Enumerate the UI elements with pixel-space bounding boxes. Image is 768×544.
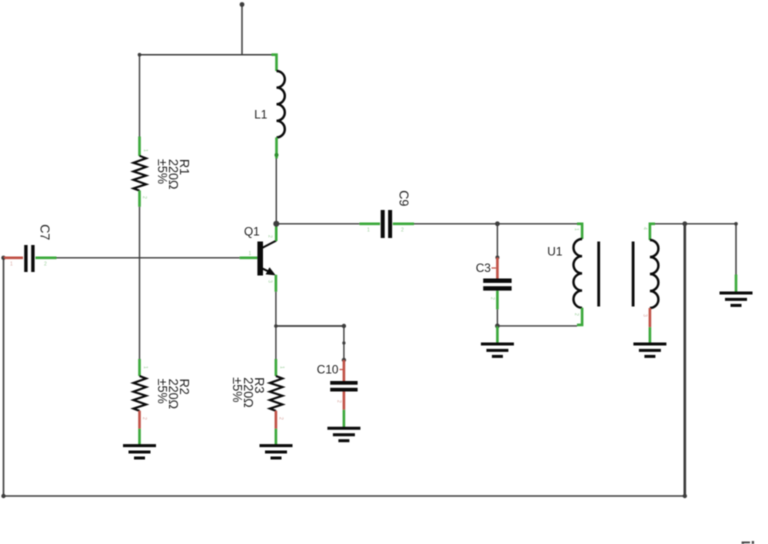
node bottom-right corner [683,494,687,498]
wire collector junction to C9 [276,223,359,225]
svg-text:1: 1 [249,251,252,257]
svg-text:2: 2 [267,235,273,238]
ground C3 [481,344,514,356]
label R2 value [155,379,191,409]
svg-text:±5%: ±5% [230,377,244,402]
node C3 top junction [495,221,500,226]
U1 pin2 [577,308,582,325]
capacitor C3 [483,224,511,326]
wire thick vertical return [683,224,686,496]
wire L1 to collector junction [275,159,277,224]
capacitor C9 [359,210,414,238]
svg-text:2: 2 [401,228,404,234]
label C9 [396,190,410,206]
label R3 value [230,377,266,407]
ground right [720,293,753,305]
wire C7 to Q1 base [57,257,240,259]
svg-text:C10: C10 [317,363,339,377]
capacitor C7 [1,245,56,272]
resistor R1 [133,137,148,207]
node tap junction [682,221,687,226]
capacitor C10 [330,326,357,428]
svg-text:1: 1 [142,149,148,152]
svg-text:2: 2 [141,196,147,199]
wire top horizontal [139,54,272,56]
U1 pin4 [650,224,655,240]
node collector junction [273,221,279,227]
svg-text:±5%: ±5% [155,159,169,184]
node bottom-left corner [1,494,5,498]
svg-text:U1: U1 [547,245,562,259]
resistor R3 [270,359,285,445]
svg-text:2: 2 [573,313,579,316]
svg-text:C3: C3 [476,261,492,275]
ground C10 [327,428,360,440]
node emitter junction [274,324,278,328]
wire bottom horizontal [4,495,685,497]
label C7 [37,224,51,240]
wire right ground pin [735,275,738,293]
svg-text:Q1: Q1 [244,224,260,238]
svg-text:1: 1 [367,228,370,234]
svg-text:2: 2 [336,400,342,403]
U1 right winding [650,240,659,308]
wire emitter to C10 branch [276,325,344,327]
U1 left winding [573,239,582,308]
svg-text:1: 1 [279,366,285,369]
wire left edge vertical [3,258,5,496]
svg-text:2: 2 [44,262,47,268]
wire C3 junction to ground [496,326,499,343]
node top-left corner [138,53,142,57]
U1 pin3 [649,308,652,327]
wire C3 to U1 pin2 [497,325,577,327]
wire antenna vertical [241,5,243,56]
U1 core [597,242,600,307]
inductor L1 [272,55,285,159]
node antenna top dot [240,2,245,7]
svg-text:3: 3 [267,280,273,283]
svg-text:L1: L1 [254,107,267,121]
wire U1 pin4 to right [655,223,736,225]
wire right corner down [735,224,737,275]
svg-text:Fl: Fl [741,539,756,544]
node C3 bottom junction [495,324,500,329]
svg-text:2: 2 [278,417,284,420]
wire down to R3 [275,326,277,360]
svg-text:±5%: ±5% [155,379,169,404]
svg-text:1: 1 [10,262,13,268]
wire R1 to R2 [139,207,141,360]
wire emitter down [275,292,277,326]
node C10 branch [342,324,346,328]
ground U1 pin3 [633,344,666,356]
svg-text:2: 2 [489,297,495,300]
ground R2 [123,446,156,458]
resistor R2 [133,359,148,445]
svg-text:1: 1 [142,366,148,369]
transistor Q1 [240,224,277,292]
ground R3 [260,446,293,458]
svg-text:2: 2 [141,417,147,420]
svg-text:C9: C9 [396,190,410,206]
svg-text:C7: C7 [37,224,51,240]
wire C9 to U1 [414,223,578,225]
transformer U1 [573,224,658,343]
U1 pin1 [577,224,582,239]
svg-text:4: 4 [642,227,648,230]
svg-text:3: 3 [642,314,648,317]
label R1 value [155,159,191,189]
svg-text:1: 1 [573,228,579,231]
wire left vertical to R1 [139,55,141,137]
